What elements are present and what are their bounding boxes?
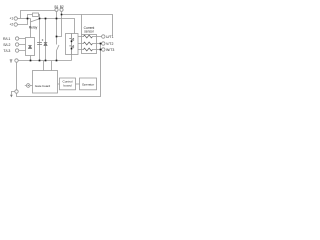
junction dot B1 xyxy=(56,18,58,20)
svg-text:R/L1: R/L1 xyxy=(3,37,10,41)
node W/T3 terminal xyxy=(102,48,105,51)
junction dot bus rectifier xyxy=(30,60,32,62)
svg-text:B1: B1 xyxy=(54,5,58,9)
node minus terminal xyxy=(15,59,18,62)
wire output stubs xyxy=(78,37,84,50)
potentiometer dot xyxy=(28,85,29,86)
wire board links xyxy=(58,83,80,85)
junction dot sensor W xyxy=(100,49,102,51)
control board box xyxy=(60,78,76,90)
svg-text:Gate board: Gate board xyxy=(35,84,51,88)
wire B2 leg xyxy=(57,11,62,36)
capacitor plus sign xyxy=(42,39,44,41)
junction dot bus capacitor xyxy=(39,60,41,62)
resistor R inrush leads xyxy=(28,15,33,19)
junction dot IGBT upper xyxy=(71,41,73,43)
wire rectifier negative leg xyxy=(30,56,32,61)
gate board box xyxy=(33,71,58,94)
junction dot bus braking xyxy=(56,60,58,62)
svg-text:sensor: sensor xyxy=(84,30,95,34)
IGBT box xyxy=(66,34,79,55)
wire phase inputs xyxy=(19,39,26,51)
svg-text:Relay: Relay xyxy=(29,26,38,30)
sensor winding V xyxy=(83,42,92,45)
diode rectifier symbol xyxy=(29,46,32,49)
node B1 terminal xyxy=(55,8,58,11)
ground symbol upper xyxy=(10,60,13,62)
sensor winding U xyxy=(83,35,92,38)
node R/L1 terminal xyxy=(15,37,18,40)
potentiometer knob xyxy=(26,84,30,88)
svg-text:V/T2: V/T2 xyxy=(106,42,113,46)
wire +2 riser xyxy=(17,19,27,25)
svg-text:+2: +2 xyxy=(10,23,14,27)
wire negative bus xyxy=(18,60,71,62)
IGBT devices xyxy=(71,34,73,55)
wire rectifier positive riser xyxy=(30,19,32,38)
node U/T1 terminal xyxy=(102,35,105,38)
junction dot resistor right xyxy=(39,18,41,20)
wire sensor outputs xyxy=(93,37,102,50)
transistor braking blade xyxy=(57,45,60,51)
wire IGBT negative leg xyxy=(71,55,73,61)
node S/L2 terminal xyxy=(15,43,18,46)
junction dot B2 tee xyxy=(61,14,63,16)
node B2 terminal xyxy=(60,8,63,11)
node T/L3 terminal xyxy=(15,49,18,52)
junction dot bus diode xyxy=(45,60,47,62)
operator box xyxy=(80,78,97,90)
rectifier box xyxy=(26,38,35,56)
wire ground link vertical xyxy=(16,62,18,90)
wire B1 leg xyxy=(56,11,58,44)
wire main positive bus xyxy=(17,18,30,20)
svg-text:S/L2: S/L2 xyxy=(3,43,10,47)
current sensor box xyxy=(82,35,97,54)
junction dot sensor V xyxy=(100,43,102,45)
node +1 terminal xyxy=(14,17,17,20)
sensor winding W xyxy=(83,48,92,51)
ground arrowhead xyxy=(10,95,13,98)
wire capacitor leg xyxy=(39,19,41,61)
junction dot B2 jog xyxy=(56,36,58,38)
svg-text:board: board xyxy=(64,83,72,87)
wire top loop to output xyxy=(62,15,113,36)
svg-text:B2: B2 xyxy=(60,5,64,9)
node ground terminal xyxy=(15,90,18,93)
junction dot IGBT lower xyxy=(71,48,73,50)
svg-text:T/L3: T/L3 xyxy=(3,49,10,53)
svg-text:+1: +1 xyxy=(10,17,14,21)
diode D1 xyxy=(44,43,47,46)
node V/T2 terminal xyxy=(102,42,105,45)
junction dot diode leg xyxy=(45,18,47,20)
svg-text:Operator: Operator xyxy=(82,83,94,87)
wire gate stubs xyxy=(44,61,52,71)
junction dot +riser xyxy=(27,18,29,20)
wire drop to current sensor xyxy=(81,15,83,35)
wire diode leg xyxy=(45,19,47,61)
svg-text:W/T3: W/T3 xyxy=(106,48,114,52)
relay contact blade xyxy=(31,19,40,22)
wire +1 to B1 top link xyxy=(21,11,55,19)
capacitor C1 plates xyxy=(37,43,42,45)
svg-text:U/T1: U/T1 xyxy=(106,35,114,39)
resistor R inrush body xyxy=(33,13,39,17)
wire bottom return xyxy=(17,44,101,97)
ground arrow xyxy=(11,92,15,95)
node +2 terminal xyxy=(14,23,17,26)
